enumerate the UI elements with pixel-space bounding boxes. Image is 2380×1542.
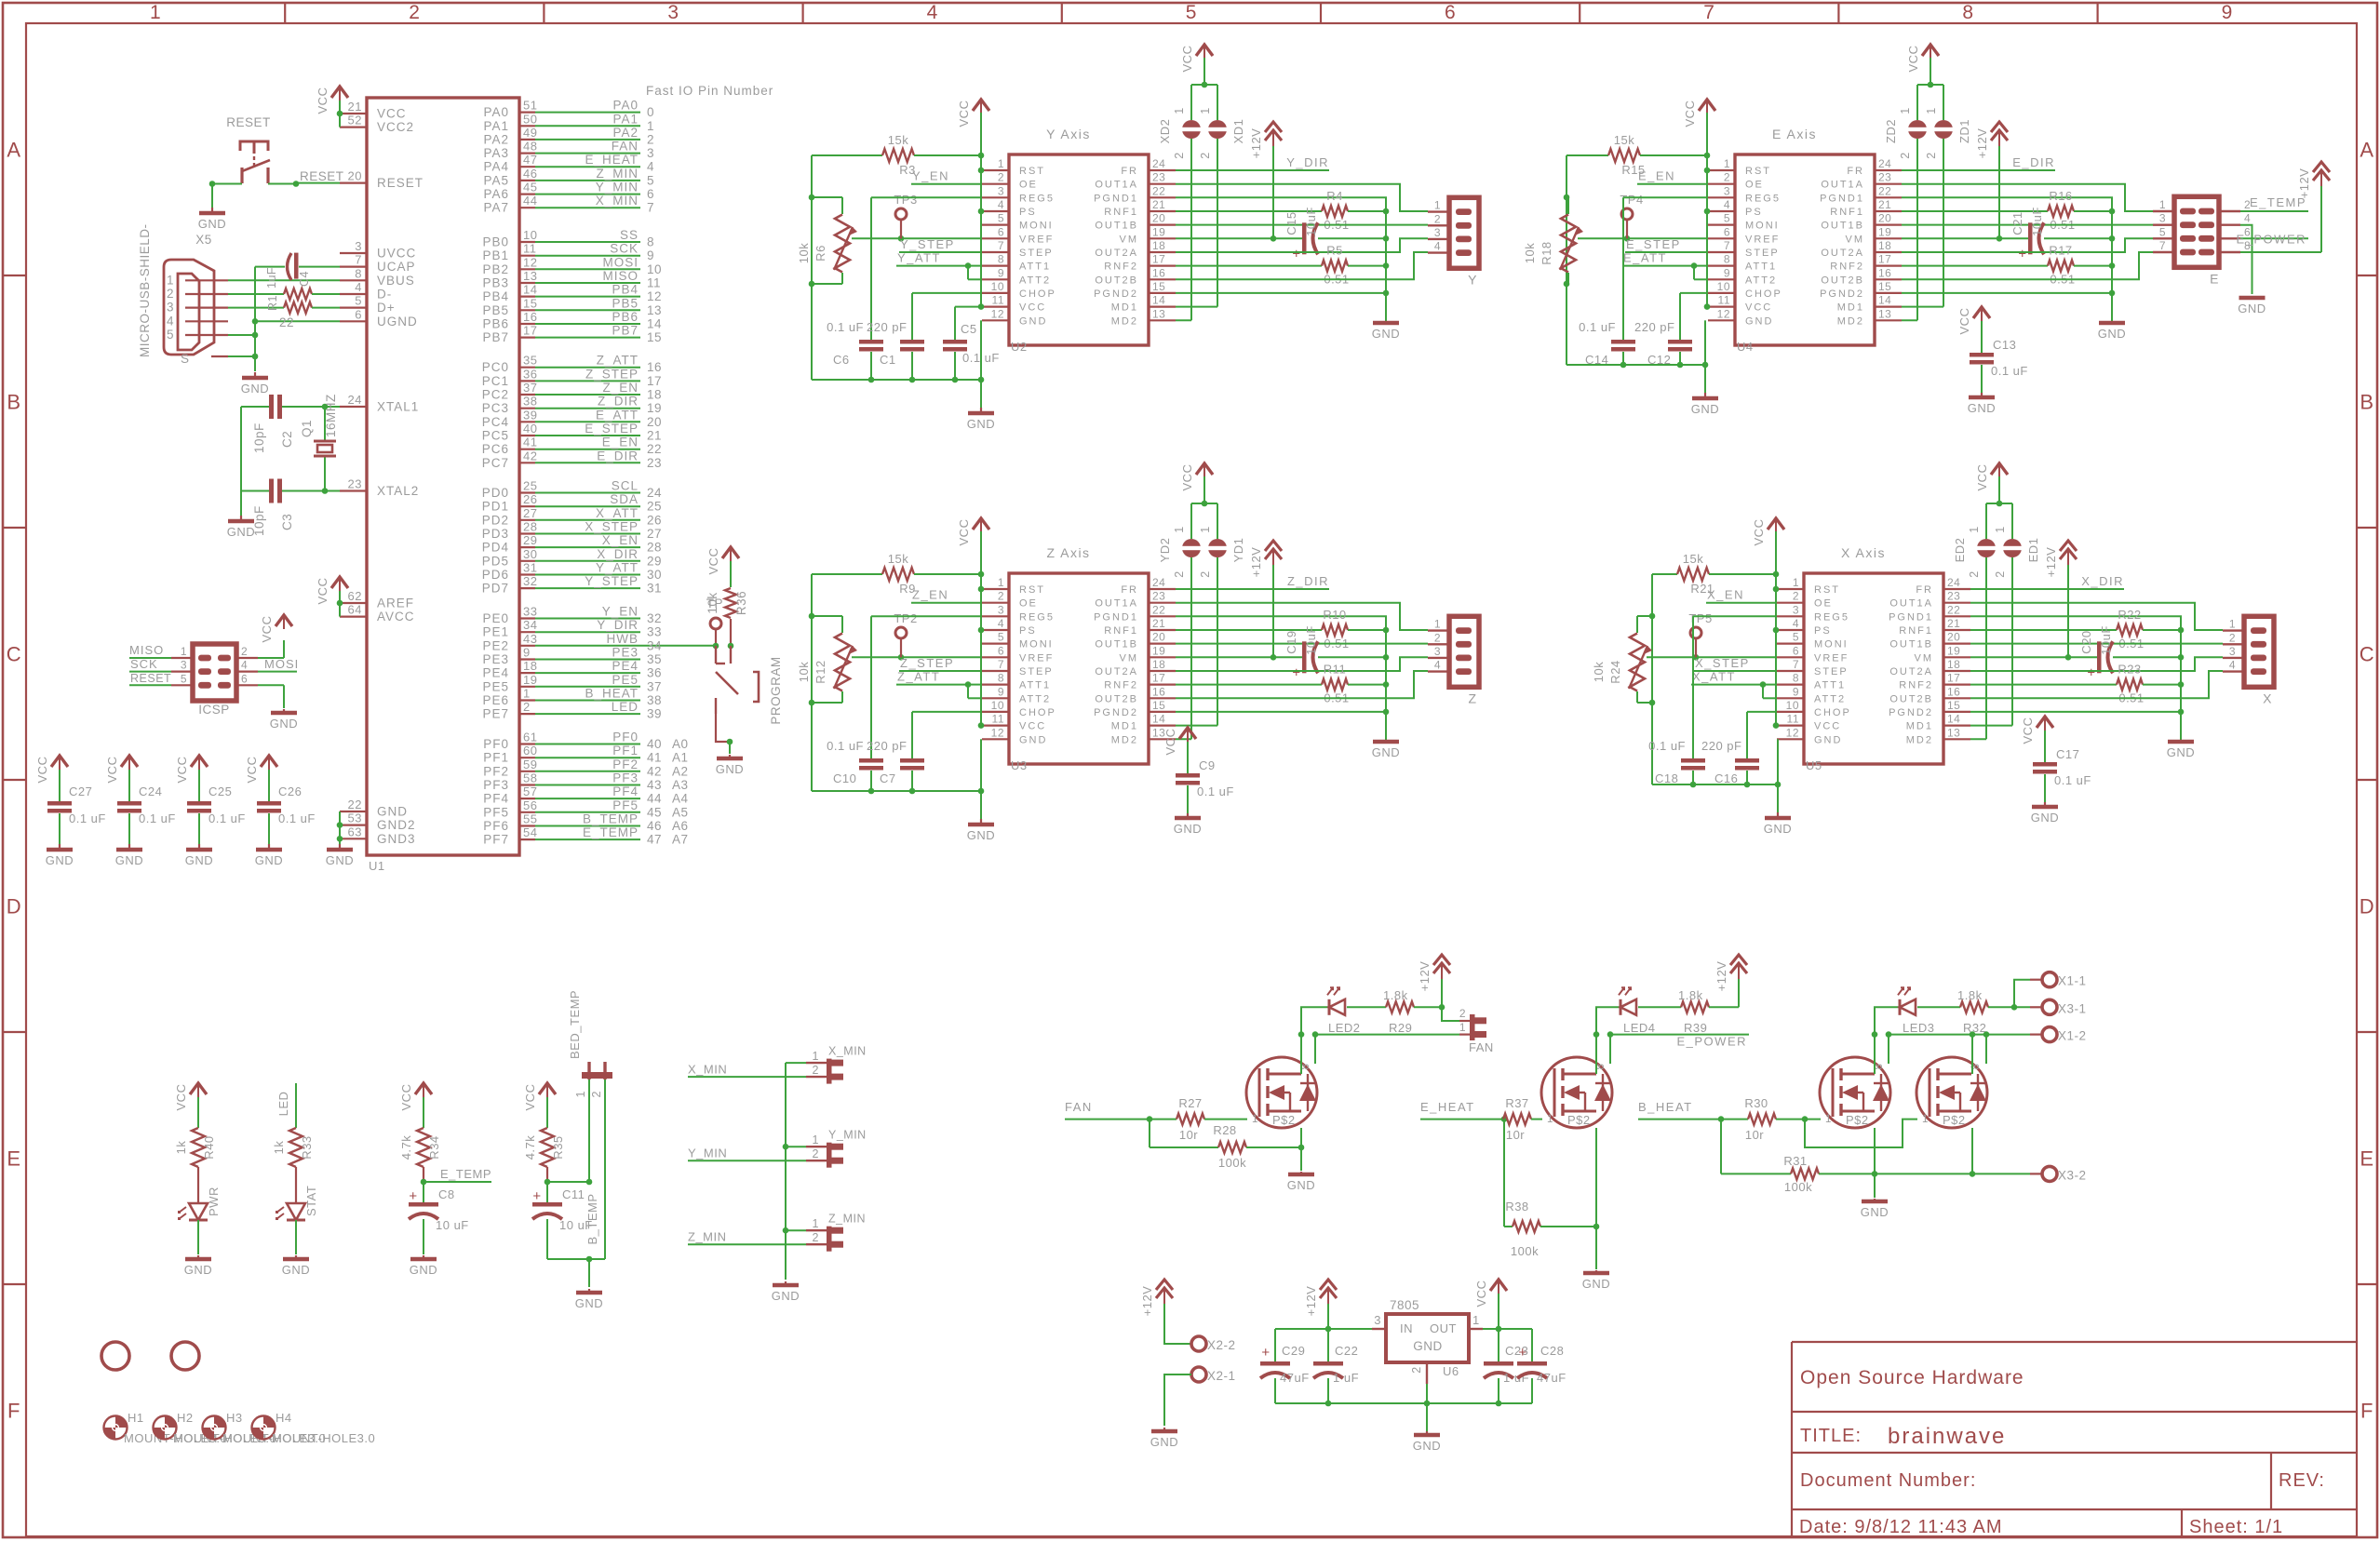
svg-text:ICSP: ICSP <box>198 703 230 717</box>
svg-text:4: 4 <box>927 2 938 23</box>
svg-text:FAN: FAN <box>1065 1100 1093 1114</box>
svg-text:7: 7 <box>647 201 654 215</box>
svg-text:ED2: ED2 <box>1953 538 1967 563</box>
svg-text:VREF: VREF <box>1019 234 1054 245</box>
svg-text:R28: R28 <box>1213 1123 1236 1137</box>
svg-text:10: 10 <box>523 228 537 242</box>
svg-text:PF2: PF2 <box>612 758 639 771</box>
svg-text:55: 55 <box>523 812 537 826</box>
svg-text:PB6: PB6 <box>482 317 509 331</box>
svg-text:VCC: VCC <box>174 1084 188 1111</box>
svg-text:6: 6 <box>1724 225 1730 238</box>
svg-text:2: 2 <box>1199 570 1212 577</box>
svg-text:MONI: MONI <box>1814 639 1849 650</box>
svg-text:PC5: PC5 <box>482 429 509 443</box>
svg-text:E_EN: E_EN <box>602 436 639 449</box>
svg-text:9: 9 <box>647 248 654 262</box>
svg-text:14: 14 <box>1878 294 1891 307</box>
svg-text:+: + <box>1261 1345 1270 1361</box>
svg-text:Z_DIR: Z_DIR <box>1287 574 1329 588</box>
svg-text:2: 2 <box>1199 152 1212 158</box>
svg-text:12: 12 <box>523 255 537 269</box>
svg-text:PC2: PC2 <box>482 388 509 402</box>
svg-text:R1: R1 <box>266 295 279 311</box>
svg-text:1: 1 <box>2229 618 2236 631</box>
svg-text:54: 54 <box>523 825 537 839</box>
svg-text:20: 20 <box>1152 631 1165 644</box>
svg-text:RNF1: RNF1 <box>1830 207 1864 218</box>
svg-text:PF4: PF4 <box>612 784 639 798</box>
svg-text:SCK: SCK <box>130 657 158 671</box>
svg-text:PA0: PA0 <box>483 105 509 119</box>
svg-text:61: 61 <box>523 731 537 744</box>
svg-text:D+: D+ <box>377 301 396 315</box>
svg-text:SDA: SDA <box>610 492 639 506</box>
svg-text:OUT2A: OUT2A <box>1095 666 1138 677</box>
svg-text:2: 2 <box>813 1064 819 1077</box>
svg-text:1: 1 <box>1199 107 1212 114</box>
svg-text:S: S <box>181 352 190 366</box>
svg-text:C9: C9 <box>1199 758 1216 772</box>
svg-text:7: 7 <box>1793 658 1799 671</box>
svg-text:39: 39 <box>647 707 662 721</box>
svg-text:8: 8 <box>998 253 1004 266</box>
svg-text:VREF: VREF <box>1745 234 1780 245</box>
svg-text:52: 52 <box>348 114 362 127</box>
svg-text:R33: R33 <box>300 1135 314 1159</box>
svg-text:PC4: PC4 <box>482 415 509 429</box>
svg-text:GND: GND <box>716 762 744 776</box>
svg-text:35: 35 <box>523 354 537 368</box>
svg-text:40: 40 <box>523 422 537 436</box>
svg-text:16MHZ: 16MHZ <box>324 394 338 437</box>
svg-text:MD1: MD1 <box>1837 302 1864 314</box>
svg-text:X5: X5 <box>195 233 212 247</box>
svg-text:XD1: XD1 <box>1231 119 1245 144</box>
svg-text:63: 63 <box>348 825 362 838</box>
svg-text:X3-2: X3-2 <box>2058 1168 2087 1182</box>
svg-text:40: 40 <box>647 737 662 751</box>
svg-text:23: 23 <box>1947 590 1960 603</box>
svg-text:RNF1: RNF1 <box>1104 625 1138 637</box>
svg-text:E_POWER: E_POWER <box>1676 1035 1747 1049</box>
svg-text:Q1: Q1 <box>300 420 314 437</box>
svg-text:4: 4 <box>1434 659 1441 672</box>
svg-text:Z_EN: Z_EN <box>912 588 948 602</box>
svg-text:44: 44 <box>523 194 537 208</box>
svg-text:E_TEMP: E_TEMP <box>583 825 639 839</box>
svg-text:15k: 15k <box>888 552 908 566</box>
svg-text:B: B <box>2360 391 2373 414</box>
svg-text:E_HEAT: E_HEAT <box>1420 1100 1475 1114</box>
svg-text:R5: R5 <box>1326 244 1343 258</box>
svg-text:1: 1 <box>1199 526 1212 532</box>
svg-text:57: 57 <box>523 784 537 798</box>
svg-text:R10: R10 <box>1323 608 1346 622</box>
svg-text:4.7k: 4.7k <box>399 1135 413 1160</box>
svg-text:ATT1: ATT1 <box>1019 261 1051 273</box>
svg-text:GND: GND <box>185 853 213 867</box>
svg-text:+12V: +12V <box>1304 1286 1318 1317</box>
svg-text:PF6: PF6 <box>483 819 509 833</box>
svg-text:+: + <box>1292 246 1300 261</box>
svg-text:21: 21 <box>1152 617 1165 630</box>
svg-text:A7: A7 <box>672 833 689 847</box>
svg-text:PF0: PF0 <box>483 737 509 751</box>
svg-text:PGND1: PGND1 <box>1094 611 1138 623</box>
svg-text:PE3: PE3 <box>612 646 639 660</box>
svg-text:OUT2B: OUT2B <box>1095 275 1138 286</box>
svg-text:MONI: MONI <box>1019 639 1054 650</box>
svg-text:14: 14 <box>647 317 662 331</box>
svg-text:3: 3 <box>181 659 187 672</box>
svg-text:0.1 uF: 0.1 uF <box>827 739 864 753</box>
svg-text:U1: U1 <box>369 859 385 873</box>
svg-text:PS: PS <box>1019 207 1037 218</box>
svg-text:PB3: PB3 <box>482 276 509 290</box>
svg-text:9: 9 <box>998 685 1004 698</box>
svg-text:X1-2: X1-2 <box>2058 1029 2087 1043</box>
svg-text:OUT2B: OUT2B <box>1095 693 1138 704</box>
svg-text:VCC: VCC <box>1474 1281 1488 1307</box>
svg-text:10k: 10k <box>797 243 811 263</box>
svg-text:VBUS: VBUS <box>377 274 415 288</box>
svg-text:1: 1 <box>1899 107 1912 114</box>
svg-text:38: 38 <box>523 395 537 409</box>
svg-text:27: 27 <box>647 527 662 541</box>
svg-text:C10: C10 <box>833 771 856 785</box>
svg-text:VCC: VCC <box>1019 302 1046 314</box>
svg-text:Z_STEP: Z_STEP <box>585 367 639 381</box>
svg-text:E_POWER: E_POWER <box>2236 232 2306 246</box>
svg-text:34: 34 <box>647 638 662 652</box>
svg-text:13: 13 <box>1947 726 1960 739</box>
svg-text:1: 1 <box>574 1091 587 1097</box>
svg-text:RNF2: RNF2 <box>1104 261 1138 273</box>
svg-text:PA0: PA0 <box>612 99 639 113</box>
svg-text:GND: GND <box>2098 327 2126 341</box>
svg-text:PGND2: PGND2 <box>1820 288 1864 300</box>
svg-text:46: 46 <box>647 819 662 833</box>
svg-text:A6: A6 <box>672 819 689 833</box>
svg-text:10k: 10k <box>1592 662 1606 682</box>
svg-text:3: 3 <box>2229 645 2236 658</box>
svg-text:ATT1: ATT1 <box>1019 680 1051 691</box>
svg-text:15: 15 <box>1947 699 1960 712</box>
svg-text:7805: 7805 <box>1390 1298 1419 1312</box>
svg-text:62: 62 <box>348 589 362 603</box>
svg-text:C29: C29 <box>1282 1344 1305 1358</box>
svg-text:38: 38 <box>647 693 662 707</box>
svg-text:PB5: PB5 <box>612 296 639 310</box>
svg-text:C7: C7 <box>880 771 896 785</box>
svg-text:PA1: PA1 <box>612 112 639 126</box>
svg-text:VCC: VCC <box>957 101 971 127</box>
svg-text:PB1: PB1 <box>482 248 509 262</box>
svg-text:X1-1: X1-1 <box>2058 974 2087 988</box>
svg-text:0.1 uF: 0.1 uF <box>1579 320 1616 334</box>
svg-text:CHOP: CHOP <box>1814 707 1851 718</box>
svg-text:D: D <box>7 895 21 918</box>
svg-text:RNF2: RNF2 <box>1830 261 1864 273</box>
svg-text:GND: GND <box>1968 401 1996 415</box>
svg-text:1k: 1k <box>272 1141 286 1155</box>
svg-text:OUT1B: OUT1B <box>1095 221 1138 232</box>
svg-text:21: 21 <box>348 100 362 114</box>
svg-text:PA2: PA2 <box>483 132 509 146</box>
svg-text:X_DIR: X_DIR <box>2081 574 2124 588</box>
svg-text:9: 9 <box>523 646 531 660</box>
svg-text:MISO: MISO <box>602 269 639 283</box>
svg-text:16: 16 <box>1878 266 1891 279</box>
svg-text:PA1: PA1 <box>483 119 509 133</box>
svg-text:24: 24 <box>1152 157 1165 170</box>
svg-text:U2: U2 <box>1011 340 1028 354</box>
svg-text:OUT1B: OUT1B <box>1095 639 1138 650</box>
svg-text:13: 13 <box>1152 307 1165 320</box>
svg-text:10r: 10r <box>1745 1128 1764 1142</box>
svg-text:E: E <box>2360 1147 2373 1171</box>
svg-text:6: 6 <box>998 225 1004 238</box>
svg-text:2: 2 <box>1968 570 1981 577</box>
svg-text:Z_MIN: Z_MIN <box>828 1213 866 1226</box>
svg-text:X2-2: X2-2 <box>1207 1338 1236 1352</box>
svg-text:R11: R11 <box>1324 663 1346 677</box>
svg-text:0.1 uF: 0.1 uF <box>208 811 246 825</box>
svg-text:3: 3 <box>1374 1313 1381 1327</box>
svg-text:R37: R37 <box>1505 1096 1528 1110</box>
svg-text:MOSI: MOSI <box>602 255 639 269</box>
svg-text:GND: GND <box>1019 734 1047 745</box>
svg-text:49: 49 <box>523 126 537 140</box>
svg-text:16: 16 <box>1152 266 1165 279</box>
svg-text:U5: U5 <box>1806 758 1822 772</box>
svg-text:+: + <box>1292 664 1300 680</box>
svg-text:15k: 15k <box>1614 133 1634 147</box>
svg-text:FAN: FAN <box>612 140 639 154</box>
svg-text:Y_STEP: Y_STEP <box>585 574 639 588</box>
svg-text:RESET: RESET <box>226 115 271 129</box>
svg-text:VCC: VCC <box>105 757 119 784</box>
svg-text:19: 19 <box>647 401 662 415</box>
svg-text:PE6: PE6 <box>482 693 509 707</box>
svg-text:9: 9 <box>998 266 1004 279</box>
svg-text:RNF1: RNF1 <box>1899 625 1933 637</box>
svg-text:4: 4 <box>1793 617 1799 630</box>
svg-text:PF1: PF1 <box>483 751 509 765</box>
svg-text:H3: H3 <box>226 1411 243 1425</box>
svg-text:47: 47 <box>523 153 537 167</box>
svg-text:Open Source Hardware: Open Source Hardware <box>1800 1367 2024 1388</box>
svg-text:GND: GND <box>198 217 226 231</box>
svg-text:RESET: RESET <box>300 169 344 183</box>
svg-text:R40: R40 <box>202 1135 216 1159</box>
svg-text:C26: C26 <box>278 784 302 798</box>
svg-text:60: 60 <box>523 744 537 758</box>
svg-text:X_STEP: X_STEP <box>585 520 639 534</box>
svg-text:14: 14 <box>1152 294 1165 307</box>
svg-text:E_ATT: E_ATT <box>1623 251 1667 265</box>
svg-text:220 pF: 220 pF <box>867 320 907 334</box>
svg-text:3: 3 <box>998 603 1004 616</box>
svg-text:10pF: 10pF <box>252 422 266 453</box>
svg-text:220 pF: 220 pF <box>1634 320 1674 334</box>
svg-text:37: 37 <box>647 679 662 693</box>
svg-text:22: 22 <box>1152 184 1165 197</box>
svg-text:A: A <box>7 139 20 162</box>
svg-text:GND: GND <box>1150 1435 1178 1449</box>
svg-text:GND: GND <box>1372 745 1400 759</box>
svg-text:43: 43 <box>647 778 662 792</box>
svg-text:FAN: FAN <box>1469 1040 1494 1054</box>
svg-text:18: 18 <box>1152 658 1165 671</box>
svg-text:5: 5 <box>167 328 174 342</box>
svg-text:25: 25 <box>523 479 537 493</box>
svg-text:OE: OE <box>1019 598 1038 610</box>
svg-text:+12V: +12V <box>1140 1286 1154 1317</box>
svg-text:2: 2 <box>998 171 1004 184</box>
svg-text:5: 5 <box>1724 212 1730 225</box>
svg-text:C25: C25 <box>208 784 232 798</box>
svg-text:R27: R27 <box>1178 1096 1202 1110</box>
svg-text:R30: R30 <box>1744 1096 1768 1110</box>
svg-text:MD2: MD2 <box>1837 315 1864 327</box>
svg-text:32: 32 <box>647 611 662 625</box>
svg-text:C8: C8 <box>438 1187 455 1201</box>
svg-text:58: 58 <box>523 771 537 785</box>
svg-text:Document Number:: Document Number: <box>1800 1470 1976 1491</box>
svg-text:U4: U4 <box>1737 340 1754 354</box>
svg-text:OUT2B: OUT2B <box>1889 693 1933 704</box>
svg-text:3: 3 <box>647 146 654 160</box>
svg-text:PD3: PD3 <box>482 527 509 541</box>
svg-text:10: 10 <box>647 262 662 276</box>
svg-text:+: + <box>2018 246 2026 261</box>
svg-text:RST: RST <box>1814 584 1840 596</box>
svg-text:1: 1 <box>1434 199 1441 212</box>
svg-text:MONI: MONI <box>1019 221 1054 232</box>
svg-text:4: 4 <box>998 617 1004 630</box>
svg-text:LED2: LED2 <box>1328 1021 1361 1035</box>
svg-text:2: 2 <box>998 590 1004 603</box>
svg-text:E_DIR: E_DIR <box>2012 155 2055 169</box>
svg-text:6: 6 <box>355 307 362 321</box>
svg-text:GND: GND <box>2167 745 2195 759</box>
svg-text:1: 1 <box>1173 526 1186 532</box>
svg-text:2: 2 <box>167 287 174 301</box>
svg-text:STEP: STEP <box>1745 248 1780 259</box>
svg-text:23: 23 <box>647 456 662 470</box>
svg-text:A: A <box>2360 139 2373 162</box>
svg-text:C22: C22 <box>1335 1344 1358 1358</box>
svg-text:C1: C1 <box>880 353 896 367</box>
svg-text:PA2: PA2 <box>612 126 639 140</box>
svg-text:+12V: +12V <box>1249 128 1263 159</box>
svg-text:H4: H4 <box>276 1411 292 1425</box>
svg-text:GND: GND <box>46 853 74 867</box>
svg-text:25: 25 <box>647 500 662 514</box>
svg-text:45: 45 <box>523 181 537 194</box>
svg-text:VM: VM <box>1915 652 1934 664</box>
svg-text:2: 2 <box>409 2 420 23</box>
svg-text:24: 24 <box>1152 576 1165 589</box>
svg-text:X_EN: X_EN <box>602 533 639 547</box>
svg-text:1: 1 <box>1472 1313 1480 1327</box>
svg-text:PC1: PC1 <box>482 374 509 388</box>
svg-text:220 pF: 220 pF <box>867 739 907 753</box>
svg-text:STAT: STAT <box>304 1186 318 1216</box>
svg-text:3: 3 <box>2159 212 2166 225</box>
svg-text:PB6: PB6 <box>612 310 639 324</box>
svg-text:A0: A0 <box>672 737 689 751</box>
svg-text:24: 24 <box>348 393 362 407</box>
svg-text:GND: GND <box>1413 1339 1443 1353</box>
svg-text:20: 20 <box>647 415 662 429</box>
svg-text:REG5: REG5 <box>1745 193 1781 204</box>
svg-text:MD1: MD1 <box>1111 721 1138 732</box>
svg-text:15: 15 <box>1152 699 1165 712</box>
svg-text:12: 12 <box>647 289 662 303</box>
svg-text:1: 1 <box>1922 1114 1929 1125</box>
svg-text:ATT1: ATT1 <box>1745 261 1777 273</box>
svg-text:VCC: VCC <box>1683 101 1697 127</box>
svg-text:Date: 9/8/12 11:43 AM: Date: 9/8/12 11:43 AM <box>1799 1517 2003 1537</box>
svg-text:MICRO-USB-SHIELD-: MICRO-USB-SHIELD- <box>138 223 152 357</box>
svg-text:18: 18 <box>1152 239 1165 252</box>
svg-text:7: 7 <box>998 239 1004 252</box>
svg-text:R31: R31 <box>1783 1154 1807 1168</box>
svg-text:A2: A2 <box>672 764 689 778</box>
svg-text:47: 47 <box>647 833 662 847</box>
svg-text:26: 26 <box>647 513 662 527</box>
svg-text:SS: SS <box>620 228 639 242</box>
svg-text:ATT2: ATT2 <box>1019 693 1051 704</box>
svg-text:R18: R18 <box>1540 241 1553 264</box>
svg-text:+12V: +12V <box>2297 168 2311 199</box>
svg-text:B_HEAT: B_HEAT <box>585 687 639 701</box>
svg-text:brainwave: brainwave <box>1888 1424 2006 1449</box>
svg-text:16: 16 <box>523 310 537 324</box>
svg-text:3: 3 <box>667 2 679 23</box>
svg-text:OUT1A: OUT1A <box>1889 598 1933 610</box>
svg-text:2: 2 <box>1173 152 1186 158</box>
svg-text:R39: R39 <box>1684 1021 1707 1035</box>
svg-text:U3: U3 <box>1011 758 1028 772</box>
svg-text:TP3: TP3 <box>894 193 917 207</box>
svg-text:3: 3 <box>1434 645 1441 658</box>
svg-text:OE: OE <box>1019 180 1038 191</box>
svg-text:0.1 uF: 0.1 uF <box>278 811 316 825</box>
svg-text:STEP: STEP <box>1019 666 1054 677</box>
svg-text:2: 2 <box>1925 152 1938 158</box>
svg-text:0.1 uF: 0.1 uF <box>827 320 864 334</box>
svg-text:5: 5 <box>181 672 187 685</box>
svg-text:X_DIR: X_DIR <box>597 547 639 561</box>
svg-text:23: 23 <box>348 477 362 491</box>
svg-text:SCL: SCL <box>612 479 639 493</box>
svg-text:17: 17 <box>1152 253 1165 266</box>
svg-text:VCC: VCC <box>706 548 720 575</box>
svg-text:PD7: PD7 <box>482 582 509 596</box>
svg-text:OUT1A: OUT1A <box>1095 598 1138 610</box>
svg-text:PB5: PB5 <box>482 303 509 317</box>
svg-text:+12V: +12V <box>1714 961 1728 992</box>
svg-text:4.7k: 4.7k <box>523 1135 537 1160</box>
svg-text:OUT2A: OUT2A <box>1821 248 1864 259</box>
svg-text:YD1: YD1 <box>1231 538 1245 563</box>
svg-text:STEP: STEP <box>1019 248 1054 259</box>
svg-text:24: 24 <box>647 486 662 500</box>
